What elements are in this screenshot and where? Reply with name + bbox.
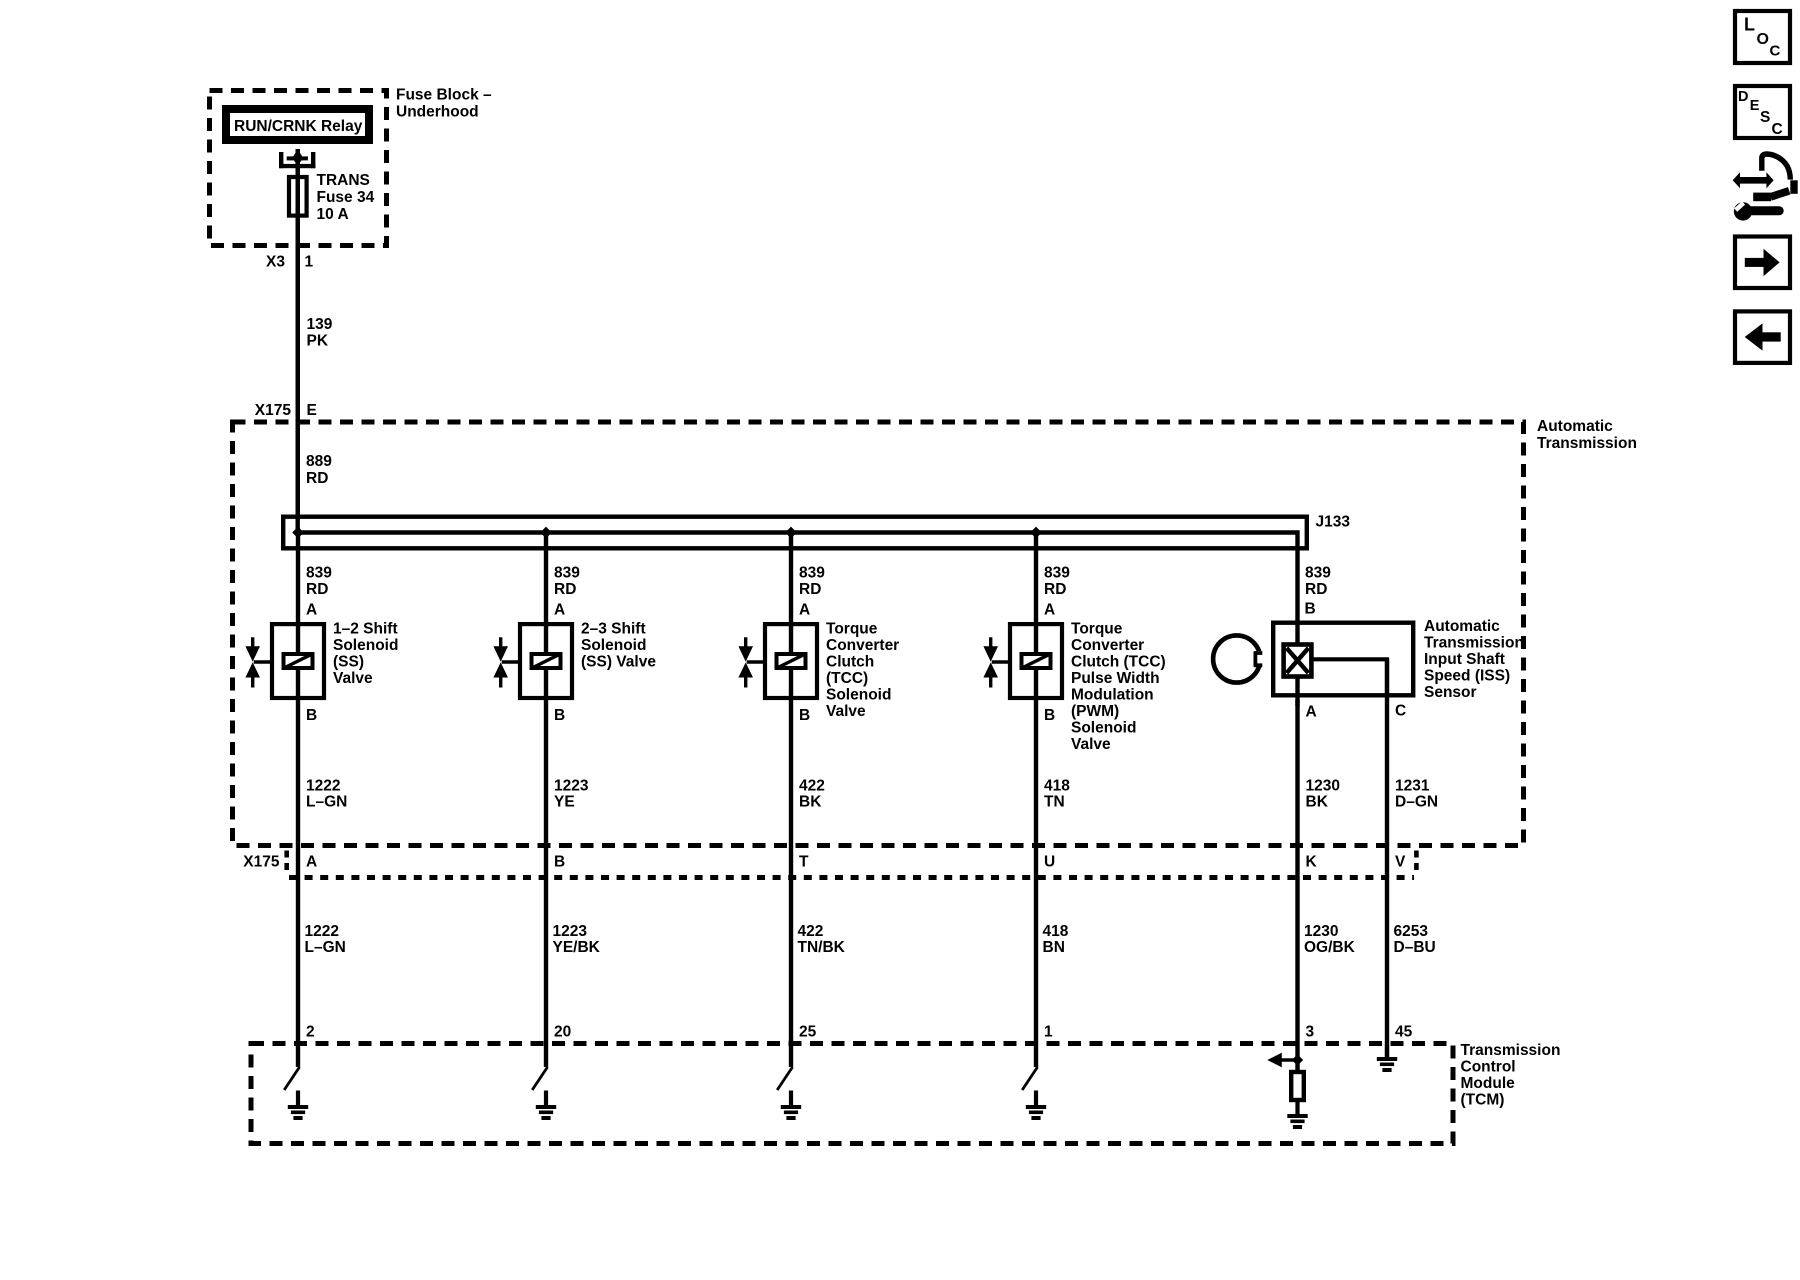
svg-text:20: 20 xyxy=(554,1024,571,1041)
svg-text:X175: X175 xyxy=(243,854,280,871)
svg-text:Transmission: Transmission xyxy=(1537,435,1637,452)
wire 422 BK from solenoid 3 pin B to TCM xyxy=(789,696,793,1067)
svg-text:E: E xyxy=(307,402,317,419)
svg-text:L–GN: L–GN xyxy=(305,939,346,956)
svg-text:1222: 1222 xyxy=(306,778,340,795)
ground, TCM column 3 xyxy=(781,1091,801,1121)
label 839 RD / pin A, drop 1 xyxy=(306,565,332,619)
fuse F34: TRANS Fuse 34 10 A xyxy=(289,172,375,223)
svg-text:Control: Control xyxy=(1461,1059,1516,1076)
svg-text:L–GN: L–GN xyxy=(306,794,347,811)
sense arrow (left), TCM pin 3 xyxy=(1267,1053,1297,1067)
label 839 RD / pin A, drop 2 xyxy=(554,565,580,619)
svg-text:O: O xyxy=(1757,31,1769,48)
svg-text:Fuse 34: Fuse 34 xyxy=(317,189,375,206)
wire 1230 BK from ISS sensor pin A to TCM xyxy=(1295,700,1299,1072)
switch blade to ground, TCM pin 4 xyxy=(1022,1067,1037,1090)
svg-text:1231: 1231 xyxy=(1395,778,1430,795)
svg-text:BN: BN xyxy=(1043,939,1065,956)
sensor: Automatic Transmission Input Shaft Speed (ISS) Sensor xyxy=(1213,623,1413,706)
wire 139 PK label xyxy=(307,316,333,350)
svg-text:Converter: Converter xyxy=(826,637,899,654)
automatic transmission (dashed box) xyxy=(233,418,1637,846)
label wire 1231 D-GN xyxy=(1395,778,1438,811)
label wire 1223, above connector xyxy=(554,778,589,811)
svg-text:X3: X3 xyxy=(266,254,285,271)
solenoid S1 1-2 Shift Solenoid (SS) Valve xyxy=(245,624,324,698)
wire 1222 L&#8211;GN from solenoid 1 pin B to TCM xyxy=(296,696,300,1067)
svg-text:Valve: Valve xyxy=(1071,736,1111,753)
svg-text:C: C xyxy=(1772,121,1783,138)
label wire 422, above connector xyxy=(799,778,825,811)
label wire 6253, below connector xyxy=(1394,923,1436,956)
svg-text:3: 3 xyxy=(1306,1024,1315,1041)
svg-text:Automatic: Automatic xyxy=(1424,618,1500,635)
svg-text:1222: 1222 xyxy=(305,923,339,940)
svg-text:BK: BK xyxy=(799,794,822,811)
svg-text:Solenoid: Solenoid xyxy=(1071,719,1136,736)
svg-text:RD: RD xyxy=(1305,581,1327,598)
ground, TCM pin 3 xyxy=(1287,1100,1307,1129)
svg-text:B: B xyxy=(1044,707,1055,724)
connector X3 pin 1 xyxy=(266,254,313,271)
svg-text:A: A xyxy=(1044,602,1055,619)
svg-text:Valve: Valve xyxy=(826,703,866,720)
svg-text:6253: 6253 xyxy=(1394,923,1429,940)
svg-text:Torque: Torque xyxy=(1071,620,1123,637)
svg-text:839: 839 xyxy=(306,565,332,582)
svg-text:D–GN: D–GN xyxy=(1395,794,1438,811)
svg-text:A: A xyxy=(306,602,317,619)
label 839 RD / pin A, drop 3 xyxy=(799,565,825,619)
svg-text:B: B xyxy=(554,707,565,724)
svg-text:TRANS: TRANS xyxy=(317,172,370,189)
switch blade to ground, TCM pin 1 xyxy=(284,1067,299,1090)
svg-text:T: T xyxy=(799,854,809,871)
svg-text:1223: 1223 xyxy=(553,923,588,940)
label S2 2-3 Shift Solenoid (SS) Valve xyxy=(581,620,656,670)
svg-text:Underhood: Underhood xyxy=(396,104,479,121)
svg-text:(TCM): (TCM) xyxy=(1461,1092,1505,1109)
svg-text:A: A xyxy=(554,602,565,619)
resistor, TCM pin 3 xyxy=(1291,1072,1304,1100)
svg-text:TN/BK: TN/BK xyxy=(798,939,846,956)
svg-text:Automatic: Automatic xyxy=(1537,418,1613,435)
svg-text:839: 839 xyxy=(554,565,580,582)
svg-text:RUN/CRNK Relay: RUN/CRNK Relay xyxy=(234,118,363,135)
label S1 1-2 Shift Solenoid (SS) Valve xyxy=(333,620,398,687)
junction dot, TCM pin 3 xyxy=(1292,1054,1303,1065)
svg-text:PK: PK xyxy=(307,333,329,350)
label wire 1222, above connector xyxy=(306,778,347,811)
svg-text:839: 839 xyxy=(1305,565,1331,582)
svg-text:45: 45 xyxy=(1395,1024,1413,1041)
svg-text:839: 839 xyxy=(1044,565,1070,582)
junction dot on J133 bus, drop 3 xyxy=(785,527,797,539)
svg-text:Modulation: Modulation xyxy=(1071,686,1154,703)
svg-text:(SS) Valve: (SS) Valve xyxy=(581,653,656,670)
svg-text:C: C xyxy=(1395,703,1406,720)
label wire 418, below connector xyxy=(1043,923,1069,956)
wire 1231 D-GN from ISS sensor pin C to TCM xyxy=(1385,659,1389,1058)
svg-text:Valve: Valve xyxy=(333,670,373,687)
svg-text:(PWM): (PWM) xyxy=(1071,703,1119,720)
wire 1223 YE from solenoid 2 pin B to TCM xyxy=(544,696,548,1067)
svg-text:422: 422 xyxy=(799,778,825,795)
solenoid S4 Torque Converter Clutch (TCC) PWM Solenoid Valve xyxy=(983,624,1062,698)
wire 839 RD drop 3 xyxy=(789,533,793,627)
svg-text:Solenoid: Solenoid xyxy=(826,686,891,703)
svg-text:1230: 1230 xyxy=(1304,923,1338,940)
svg-text:Clutch (TCC): Clutch (TCC) xyxy=(1071,653,1166,670)
svg-text:Converter: Converter xyxy=(1071,637,1144,654)
svg-text:RD: RD xyxy=(799,581,821,598)
svg-text:Module: Module xyxy=(1461,1075,1516,1092)
svg-text:D–BU: D–BU xyxy=(1394,939,1436,956)
svg-text:BK: BK xyxy=(1306,794,1329,811)
wire 839 RD drop 1 xyxy=(296,533,300,627)
ground, TCM column 4 xyxy=(1026,1091,1046,1121)
svg-text:A: A xyxy=(799,602,810,619)
svg-text:10 A: 10 A xyxy=(317,206,349,223)
svg-text:418: 418 xyxy=(1043,923,1069,940)
label wire 1230 BK xyxy=(1306,778,1340,811)
TCM: Transmission Control Module (dashed box) xyxy=(251,1042,1560,1144)
junction dot on J133 bus, drop 1 xyxy=(292,527,304,539)
svg-text:C: C xyxy=(1770,43,1781,60)
svg-text:K: K xyxy=(1306,854,1318,871)
svg-text:422: 422 xyxy=(798,923,824,940)
svg-text:YE: YE xyxy=(554,794,575,811)
wire 418 TN from solenoid 4 pin B to TCM xyxy=(1034,696,1038,1067)
fuse block underhood (dashed box) xyxy=(210,87,492,246)
svg-text:D: D xyxy=(1738,89,1748,105)
svg-text:Solenoid: Solenoid xyxy=(333,637,398,654)
wire 839 RD drop 4 xyxy=(1034,533,1038,627)
junction dot on J133 bus, drop 2 xyxy=(540,527,552,539)
svg-text:X175: X175 xyxy=(255,402,292,419)
switch blade to ground, TCM pin 3 xyxy=(777,1067,792,1090)
svg-text:A: A xyxy=(306,854,317,871)
solenoid S2 2-3 Shift Solenoid (SS) Valve xyxy=(493,624,572,698)
svg-text:1230: 1230 xyxy=(1306,778,1340,795)
svg-text:Solenoid: Solenoid xyxy=(581,637,646,654)
label S3 Torque Converter Clutch (TCC) Solenoid Valve xyxy=(826,620,899,720)
label wire 422, below connector xyxy=(798,923,846,956)
svg-text:A: A xyxy=(1306,704,1317,721)
svg-text:RD: RD xyxy=(554,581,576,598)
svg-text:RD: RD xyxy=(1044,581,1066,598)
svg-text:J133: J133 xyxy=(1316,514,1351,531)
label 839 RD / pin A, drop 4 xyxy=(1044,565,1070,619)
svg-text:L: L xyxy=(1744,15,1755,35)
icon box arrow right xyxy=(1735,237,1790,289)
relay: RUN/CRNK Relay xyxy=(226,109,369,140)
label wire 1223, below connector xyxy=(553,923,601,956)
svg-text:S: S xyxy=(1760,109,1770,126)
label 839 RD / pin B, drop 5 (ISS sensor) xyxy=(1305,565,1332,618)
label ISS sensor xyxy=(1424,618,1524,701)
connector X175 pin E xyxy=(255,402,317,419)
splice pack J133 (bus) xyxy=(283,149,1350,642)
ground, TCM column 1 xyxy=(288,1091,308,1121)
svg-text:Pulse Width: Pulse Width xyxy=(1071,670,1160,687)
solenoid S3 Torque Converter Clutch (TCC) Solenoid Valve xyxy=(738,624,817,698)
svg-text:E: E xyxy=(1750,98,1760,114)
svg-text:139: 139 xyxy=(307,316,333,333)
icon box DESC xyxy=(1735,86,1790,138)
icon box arrow left xyxy=(1735,311,1790,363)
svg-text:2: 2 xyxy=(306,1024,315,1041)
svg-text:Fuse Block –: Fuse Block – xyxy=(396,87,492,104)
svg-text:839: 839 xyxy=(799,565,825,582)
wire from relay through fuse to connector X175 xyxy=(296,149,300,517)
svg-text:Sensor: Sensor xyxy=(1424,684,1477,701)
svg-text:Transmission: Transmission xyxy=(1424,635,1524,652)
svg-text:1–2 Shift: 1–2 Shift xyxy=(333,620,398,637)
svg-text:B: B xyxy=(306,707,317,724)
icon box LOC xyxy=(1735,11,1790,63)
label wire 1230, below connector xyxy=(1304,923,1356,956)
relay output pin symbol (bracket and contact diamond) xyxy=(279,150,315,169)
icon: double arrow with curved arrow and wrench xyxy=(1733,154,1798,221)
svg-text:(SS): (SS) xyxy=(333,653,364,670)
connector X175 (lower band) xyxy=(243,851,1416,878)
svg-text:Input Shaft: Input Shaft xyxy=(1424,651,1505,668)
wire 889 RD label xyxy=(306,453,332,487)
svg-text:RD: RD xyxy=(306,581,328,598)
svg-text:(TCC): (TCC) xyxy=(826,670,868,687)
svg-text:Transmission: Transmission xyxy=(1461,1042,1561,1059)
svg-text:Speed (ISS): Speed (ISS) xyxy=(1424,668,1510,685)
svg-text:1: 1 xyxy=(305,254,314,271)
svg-text:TN: TN xyxy=(1044,794,1065,811)
svg-text:B: B xyxy=(1305,601,1316,618)
svg-text:RD: RD xyxy=(306,470,328,487)
svg-text:889: 889 xyxy=(306,453,332,470)
svg-text:1223: 1223 xyxy=(554,778,589,795)
svg-text:V: V xyxy=(1395,854,1406,871)
svg-text:2–3 Shift: 2–3 Shift xyxy=(581,620,646,637)
label wire 1222, below connector xyxy=(305,923,346,956)
label S4 Torque Converter Clutch (TCC) PWM Solenoid Valve xyxy=(1071,620,1166,753)
svg-text:1: 1 xyxy=(1044,1024,1053,1041)
junction dot on J133 bus, drop 4 xyxy=(1030,527,1042,539)
svg-text:B: B xyxy=(799,707,810,724)
svg-text:U: U xyxy=(1044,854,1055,871)
label wire 418, above connector xyxy=(1044,778,1070,811)
switch blade to ground, TCM pin 2 xyxy=(532,1067,547,1090)
svg-text:YE/BK: YE/BK xyxy=(553,939,601,956)
svg-text:OG/BK: OG/BK xyxy=(1304,939,1356,956)
ground, TCM pin 45 xyxy=(1377,1045,1397,1072)
wire 839 RD drop 2 xyxy=(544,533,548,627)
svg-text:B: B xyxy=(554,854,565,871)
svg-text:25: 25 xyxy=(799,1024,817,1041)
ground, TCM column 2 xyxy=(536,1091,556,1121)
svg-text:Torque: Torque xyxy=(826,620,878,637)
svg-text:Clutch: Clutch xyxy=(826,653,874,670)
svg-text:418: 418 xyxy=(1044,778,1070,795)
